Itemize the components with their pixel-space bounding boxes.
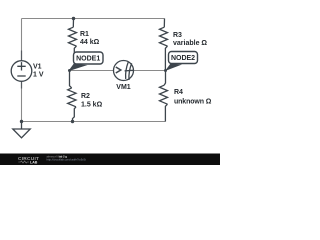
wire left rail upper — [21, 19, 23, 61]
svg-text:unknown Ω: unknown Ω — [174, 98, 212, 105]
wire left rail lower — [21, 81, 23, 121]
wire VM1 to node2 — [133, 70, 165, 72]
svg-text:http://circuitlab.com/csdrh7ry: http://circuitlab.com/csdrh7ry9z3t — [47, 157, 87, 161]
resistor R1 — [69, 19, 77, 71]
svg-text:1.5 kΩ: 1.5 kΩ — [81, 101, 103, 108]
svg-text:R3: R3 — [173, 32, 182, 39]
svg-text:R1: R1 — [80, 31, 89, 38]
junction dot top R1 — [72, 17, 75, 20]
wire node1 to VM1 — [70, 70, 114, 72]
svg-text:1 V: 1 V — [33, 72, 44, 79]
svg-text:LAB: LAB — [30, 161, 38, 165]
svg-text:44 kΩ: 44 kΩ — [80, 39, 100, 46]
voltage source V1 — [11, 51, 32, 89]
svg-text:R2: R2 — [81, 93, 90, 100]
node B node2 point — [164, 69, 167, 72]
svg-text:NODE1: NODE1 — [76, 56, 100, 63]
svg-text:NODE2: NODE2 — [171, 55, 195, 62]
footer bar — [0, 154, 220, 166]
ground — [13, 122, 30, 138]
svg-text:VM1: VM1 — [116, 84, 131, 91]
wire top rail — [22, 18, 165, 20]
junction dot bottom left — [20, 120, 23, 123]
footer CircuitLab logo — [18, 156, 39, 165]
resistor R2 — [68, 71, 76, 122]
voltmeter VM1 — [114, 61, 134, 81]
resistor R4 — [160, 71, 168, 122]
resistor R3 — [160, 19, 168, 71]
node NODE2 flag — [165, 52, 198, 72]
junction dot bottom R2 — [71, 120, 74, 123]
svg-text:R4: R4 — [174, 89, 183, 96]
svg-text:V1: V1 — [33, 64, 42, 71]
node NODE1 flag — [69, 52, 103, 71]
wire bottom rail — [22, 121, 166, 123]
node A node1 point — [68, 69, 71, 72]
svg-text:variable Ω: variable Ω — [173, 40, 207, 47]
